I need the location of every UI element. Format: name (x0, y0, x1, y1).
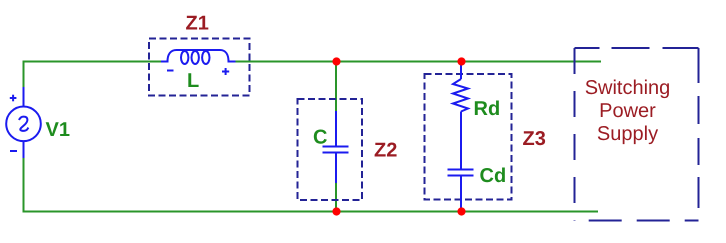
svg-text:Cd: Cd (480, 165, 507, 187)
junction dot top of Z3 branch (457, 57, 465, 65)
voltage source V1 (6, 87, 41, 158)
switching power supply box (575, 48, 699, 221)
inductor L (161, 50, 236, 64)
svg-text:Switching: Switching (585, 77, 671, 99)
impedance box Z1 (149, 39, 250, 96)
polarity - of V1 (10, 150, 17, 152)
polarity + of inductor (222, 68, 229, 75)
svg-text:L: L (187, 70, 199, 92)
capacitor C (323, 111, 349, 183)
wire: left vertical lower (23, 158, 25, 213)
junction dot bottom of Z2 branch (332, 207, 340, 215)
resistor Rd (453, 62, 468, 169)
wire: top rail right segment (235, 61, 601, 63)
wire: left vertical upper (23, 61, 25, 88)
wire: bottom rail (23, 211, 599, 213)
svg-text:Z2: Z2 (374, 140, 397, 162)
svg-text:V1: V1 (46, 119, 70, 141)
junction dot bottom of Z3 branch (457, 207, 465, 215)
svg-text:Supply: Supply (597, 123, 658, 145)
wire: Z2 branch top (335, 62, 337, 112)
capacitor Cd (448, 170, 474, 212)
svg-text:C: C (313, 127, 327, 149)
svg-text:Power: Power (599, 100, 656, 122)
polarity + of V1 (10, 95, 17, 102)
wire: Z2 branch bottom (335, 183, 337, 212)
svg-text:Z1: Z1 (186, 13, 209, 35)
svg-text:Rd: Rd (474, 98, 501, 120)
svg-text:Z3: Z3 (523, 128, 546, 150)
wire: top rail left segment (23, 61, 162, 63)
junction dot top of Z2 branch (332, 57, 340, 65)
polarity - of inductor (167, 70, 174, 72)
impedance box Z3 (425, 74, 512, 200)
impedance box Z2 (298, 99, 363, 200)
